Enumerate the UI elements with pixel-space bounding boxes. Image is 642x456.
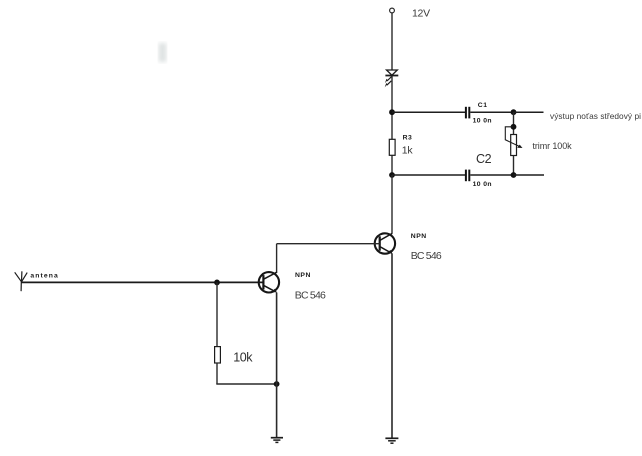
- svg-text:antena: antena: [30, 273, 59, 280]
- wire output stub: [514, 111, 544, 113]
- node output top junction: [511, 109, 517, 115]
- capacitor C1: [465, 107, 467, 119]
- svg-text:10 0n: 10 0n: [473, 118, 492, 125]
- wire C2 to bottom output node: [470, 174, 513, 176]
- wire node A to C1: [392, 111, 465, 113]
- node base/bias junction: [214, 280, 220, 286]
- svg-text:R3: R3: [403, 134, 413, 141]
- wire Q2 emitter to ground: [391, 254, 393, 438]
- resistor R3 1k: [389, 139, 395, 155]
- supply terminal 12V: [390, 8, 395, 13]
- wire node to trimmer: [513, 112, 515, 134]
- svg-text:C1: C1: [478, 102, 488, 109]
- node B junction: [389, 172, 395, 178]
- svg-text:NPN: NPN: [411, 233, 427, 240]
- wire node B to Q2 collector: [391, 175, 393, 234]
- svg-text:C2: C2: [476, 152, 492, 166]
- wire LED to node A: [391, 76, 393, 140]
- svg-text:12V: 12V: [412, 8, 430, 20]
- svg-text:NPN: NPN: [295, 272, 311, 279]
- LED D1: [385, 70, 399, 87]
- wire supply to LED: [391, 13, 393, 70]
- transistor Q2 BC546: [375, 233, 395, 253]
- wire bias node to R 10k: [216, 282, 218, 346]
- svg-text:10 0n: 10 0n: [473, 181, 492, 188]
- node emitter junction: [274, 381, 280, 387]
- resistor R 10k: [215, 347, 221, 363]
- wire bottom bias to emitter: [216, 383, 276, 385]
- wire bottom output stub: [514, 174, 545, 176]
- scan smudge artifact: [159, 43, 167, 62]
- wire node B to C2: [392, 174, 465, 176]
- node A junction: [389, 109, 395, 115]
- svg-text:1k: 1k: [402, 145, 414, 157]
- svg-text:výstup noťas středový pi: výstup noťas středový pi: [550, 111, 641, 121]
- svg-text:BC 546: BC 546: [295, 289, 326, 301]
- capacitor C2: [465, 170, 467, 182]
- trimmer P1 100k: [505, 127, 522, 156]
- wire Q1 collector to Q2 base: [277, 243, 380, 245]
- wire Q1 emitter to ground: [276, 293, 278, 438]
- antenna: [15, 271, 28, 291]
- node bottom output junction: [511, 172, 517, 178]
- ground (Q2 emitter): [385, 438, 398, 443]
- wire trimmer to bottom node: [513, 156, 515, 176]
- wire R 10k to bottom: [216, 363, 218, 384]
- svg-text:BC 546: BC 546: [411, 250, 442, 262]
- ground (Q1 emitter): [271, 438, 283, 443]
- transistor Q1 BC546: [259, 272, 279, 292]
- node trimmer wiper junction: [511, 124, 517, 130]
- svg-text:10k: 10k: [233, 350, 253, 364]
- wire R3 to node B: [391, 155, 393, 175]
- wire C1 to output node: [470, 111, 513, 113]
- wire antenna to Q1 base: [22, 281, 264, 283]
- svg-text:trimr 100k: trimr 100k: [533, 141, 573, 151]
